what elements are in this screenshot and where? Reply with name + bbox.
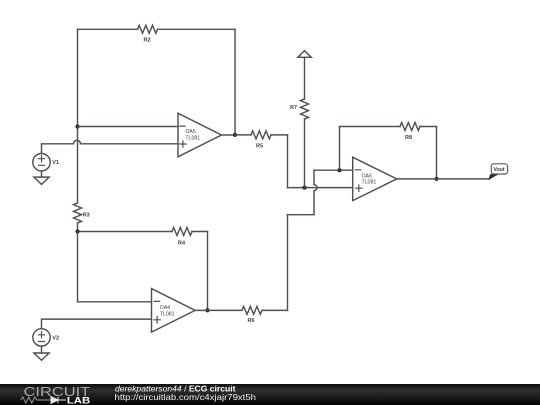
wire V2 to OA4 non-inverting input — [42, 319, 152, 329]
wire R3 junction to R4 — [78, 231, 173, 233]
wire up from R6 — [287, 215, 289, 311]
junction at OA4 output — [205, 308, 209, 312]
wire junction to R3 top — [77, 127, 79, 204]
wire OA5 output to R5 — [235, 134, 251, 136]
svg-text:TL081: TL081 — [362, 180, 377, 186]
wire R6 to corner — [262, 309, 288, 311]
power symbol above R7 — [298, 51, 311, 58]
resistor R2 — [138, 25, 158, 33]
wire left vertical upper (R2 leg down to junction) — [77, 29, 79, 126]
svg-text:TL081: TL081 — [185, 135, 200, 141]
wire V1 to OA5 non-inverting input (hop over vertical) — [42, 140, 179, 153]
wire power to R7 — [304, 57, 306, 99]
svg-text:V1: V1 — [52, 160, 59, 166]
CircuitLab logo zigzag and diode — [21, 397, 66, 404]
svg-text:TL081: TL081 — [160, 312, 175, 318]
svg-text:R2: R2 — [143, 37, 150, 43]
wire V2 to ground — [41, 346, 43, 353]
wire R4 to corner — [192, 231, 208, 233]
svg-text:R5: R5 — [256, 143, 263, 149]
wire OA6 output to Vout — [397, 178, 490, 180]
wire top-left horizontal to R2 — [78, 28, 138, 30]
wire OA4 output to R6 — [195, 309, 242, 311]
junction R3 bottom — [75, 229, 79, 233]
svg-text:http://circuitlab.com/c4xjajr7: http://circuitlab.com/c4xjajr79xt5h — [115, 392, 257, 402]
ground (V2) — [34, 353, 49, 360]
voltage source V2 — [33, 329, 50, 346]
resistor R5 — [251, 131, 271, 139]
wire up to OA6 inverting (hop over plus wire) — [314, 170, 317, 215]
junction R8 left leg — [337, 168, 341, 172]
wire jog right — [288, 214, 315, 216]
junction R2 leg / OA5 inverting input — [75, 124, 79, 128]
wire OA6 inverting input — [314, 169, 353, 171]
resistor R8 — [400, 123, 420, 131]
wire OA5 inverting input — [78, 126, 179, 128]
node Vout flag — [488, 164, 507, 180]
wire R8 top left — [340, 126, 401, 128]
junction R8 right leg — [434, 177, 438, 181]
svg-text:R8: R8 — [405, 135, 412, 141]
wire to OA6 non-inverting input — [288, 187, 353, 189]
wire OA4 inverting input — [78, 301, 152, 303]
svg-text:OA6: OA6 — [362, 173, 372, 179]
wire V1 to ground — [41, 171, 43, 177]
wire right vertical of R2 loop — [234, 29, 236, 135]
svg-text:OA4: OA4 — [160, 305, 170, 311]
svg-text:R3: R3 — [83, 213, 90, 219]
svg-text:R7: R7 — [290, 105, 297, 111]
svg-text:R6: R6 — [247, 318, 254, 324]
footer bar — [0, 384, 540, 405]
wire OA5 output — [222, 134, 236, 136]
resistor R4 — [172, 228, 192, 236]
op-amp OA5 — [178, 113, 222, 157]
wire down from R5 — [287, 135, 289, 188]
svg-text:OA5: OA5 — [185, 129, 195, 135]
ground (V1) — [34, 177, 49, 184]
wire R7 to junction — [304, 119, 306, 188]
junction at OA5 output — [233, 133, 237, 137]
svg-text:Vout: Vout — [493, 167, 504, 173]
resistor R7 — [301, 99, 309, 119]
wire R5 to corner — [271, 134, 288, 136]
wire R2 to top-right corner — [158, 28, 236, 30]
op-amp OA4 — [152, 289, 196, 333]
voltage source V1 — [33, 154, 50, 171]
op-amp OA6 — [353, 157, 397, 200]
resistor R3 — [74, 203, 82, 223]
svg-text:LAB: LAB — [67, 396, 90, 405]
wire R8 top right — [420, 126, 437, 128]
wire R3 bottom to junction — [77, 223, 79, 232]
wire R8 left leg — [339, 127, 341, 171]
svg-text:R4: R4 — [178, 241, 186, 247]
resistor R6 — [242, 306, 262, 314]
wire down to OA4 inverting input — [77, 232, 79, 302]
svg-text:V2: V2 — [52, 335, 59, 341]
junction R7 bottom — [302, 186, 306, 190]
wire R8 right leg — [436, 127, 438, 179]
wire R4 corner down to OA4 output — [207, 232, 209, 311]
